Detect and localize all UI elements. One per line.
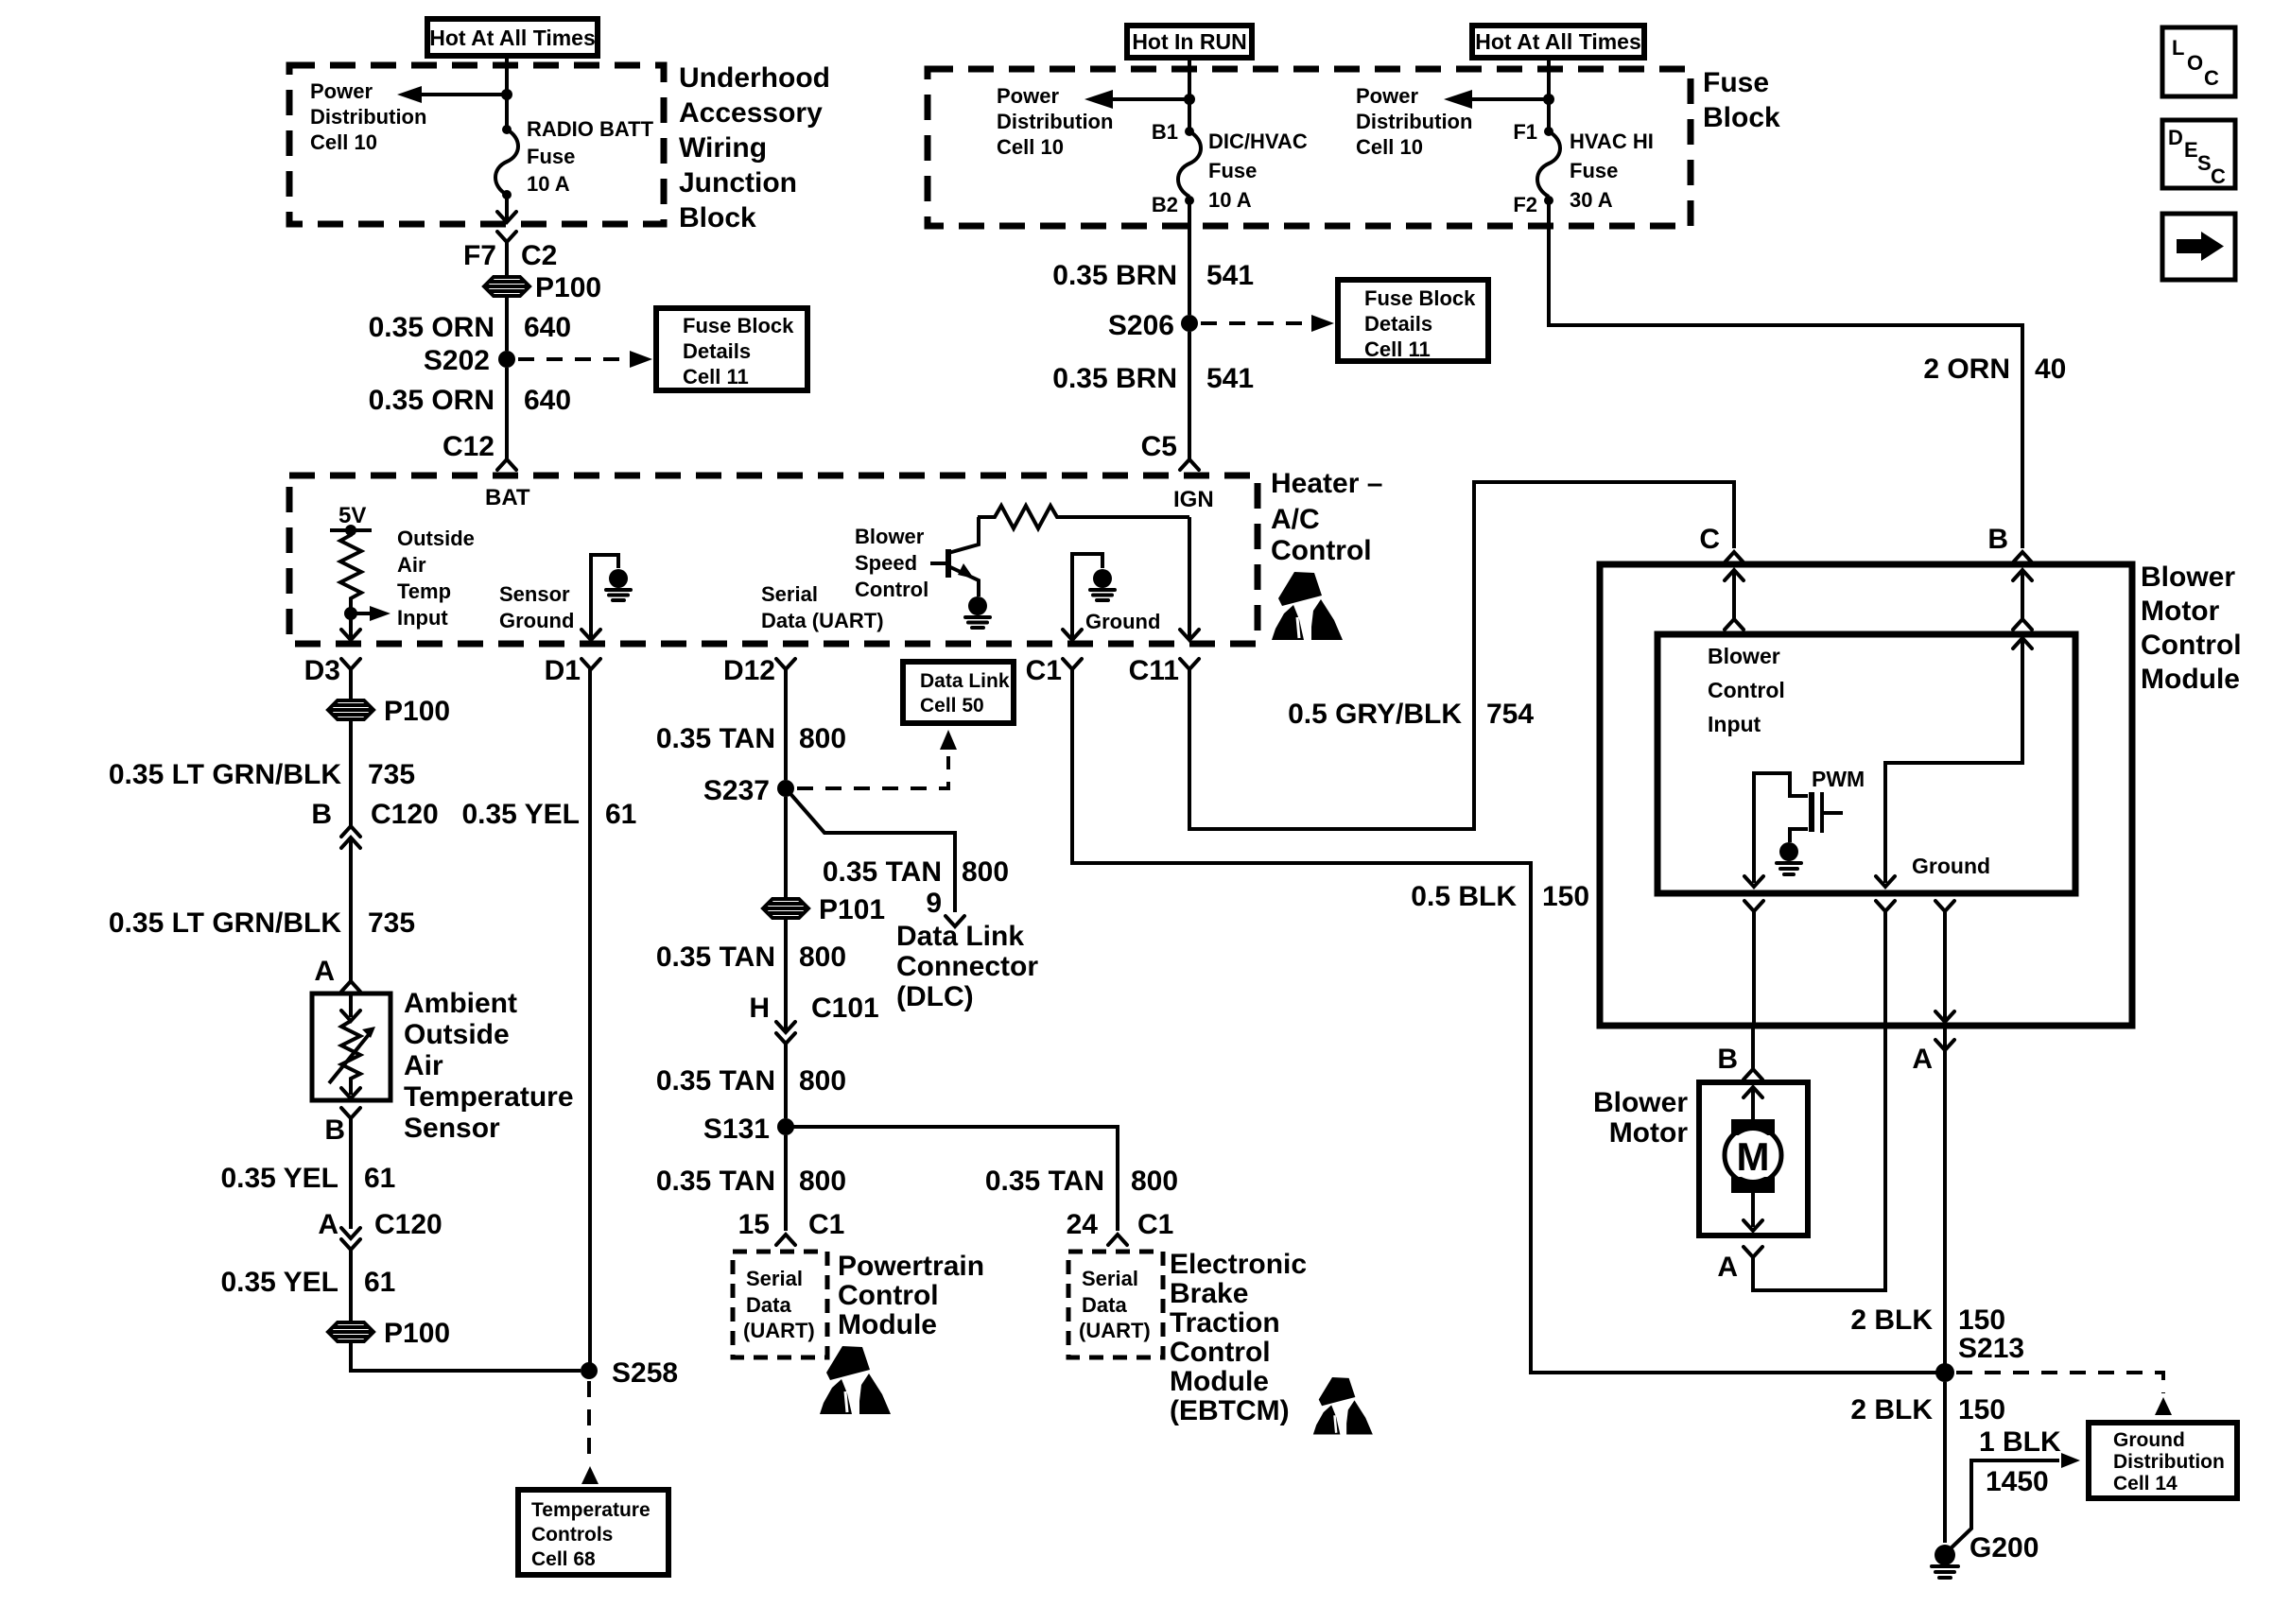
module title xyxy=(2141,561,2242,695)
svg-text:S258: S258 xyxy=(612,1357,678,1389)
svg-text:0.5 BLK: 0.5 BLK xyxy=(1411,881,1517,912)
ESD symbol (PCM) xyxy=(820,1346,891,1414)
wire S237 down to P101 xyxy=(784,797,788,898)
pin D12 chevron and label xyxy=(723,655,795,686)
wire S131 branch to EBTCM pin 24 xyxy=(786,1127,1118,1231)
module pin B internal arrow xyxy=(2013,570,2032,630)
svg-text:B2: B2 xyxy=(1152,193,1178,216)
svg-text:Electronic: Electronic xyxy=(1170,1249,1307,1280)
pin C11 chevron and label xyxy=(1129,655,1199,686)
forward arrow box xyxy=(2162,214,2235,280)
dashed reference arrow S237 to Data Link Cell 50 xyxy=(797,730,957,788)
svg-text:Blower: Blower xyxy=(855,525,925,548)
svg-text:Fuse: Fuse xyxy=(1570,159,1618,182)
svg-text:H: H xyxy=(749,993,770,1024)
svg-text:Distribution: Distribution xyxy=(1356,110,1472,133)
wire: power distribution feed arrow (left) xyxy=(1084,90,1189,109)
module pin to motor A return xyxy=(1753,1026,1885,1290)
Heater - A/C Control title xyxy=(1271,468,1382,566)
DESC reference box xyxy=(2162,120,2235,188)
svg-text:61: 61 xyxy=(605,799,636,830)
connector B into module xyxy=(1987,524,2032,562)
svg-text:2 BLK: 2 BLK xyxy=(1850,1304,1933,1336)
wire D1 sensor ground down to S258 xyxy=(588,669,592,1371)
splice S258 xyxy=(581,1357,678,1389)
svg-text:Speed: Speed xyxy=(855,551,917,575)
svg-text:G200: G200 xyxy=(1969,1532,2039,1564)
svg-text:Temp: Temp xyxy=(397,579,451,603)
svg-text:Control: Control xyxy=(2141,630,2242,661)
svg-text:10 A: 10 A xyxy=(1208,188,1252,212)
svg-text:P100: P100 xyxy=(384,1318,450,1349)
svg-text:RADIO BATT: RADIO BATT xyxy=(527,117,654,141)
svg-text:(UART): (UART) xyxy=(743,1319,815,1342)
svg-text:P100: P100 xyxy=(535,272,601,303)
svg-text:Cell 50: Cell 50 xyxy=(920,695,984,717)
Serial Data (UART) pin text xyxy=(761,582,884,632)
svg-text:A: A xyxy=(1717,1252,1738,1283)
splice S206 xyxy=(1108,310,1198,341)
Blower Motor box xyxy=(1699,1082,1808,1235)
wire 2 BLK 150 (below S213) to G200 xyxy=(1943,1382,1947,1543)
svg-text:Temperature: Temperature xyxy=(531,1499,651,1521)
connector P100 (lower) xyxy=(328,1318,450,1349)
Hot At All Times label box (right) xyxy=(1472,26,1644,58)
svg-text:Wiring: Wiring xyxy=(679,132,767,164)
Fuse Block Details Cell 11 box (right) xyxy=(1338,280,1488,361)
svg-text:0.35 BRN: 0.35 BRN xyxy=(1052,260,1177,291)
svg-text:C120: C120 xyxy=(371,799,439,830)
svg-text:Connector: Connector xyxy=(896,951,1038,982)
wire down to D3 with arrow xyxy=(341,619,360,640)
svg-text:Block: Block xyxy=(679,202,756,233)
svg-text:Control: Control xyxy=(855,578,928,601)
connector P101 xyxy=(763,894,885,925)
svg-text:IGN: IGN xyxy=(1173,487,1214,512)
svg-text:Data: Data xyxy=(746,1293,791,1317)
svg-text:0.35 TAN: 0.35 TAN xyxy=(656,1065,775,1097)
svg-text:C: C xyxy=(2204,66,2219,90)
wire branch S237 to DLC xyxy=(786,788,955,912)
svg-text:(UART): (UART) xyxy=(1079,1319,1151,1342)
svg-text:C1: C1 xyxy=(808,1209,844,1240)
Ground Distribution Cell 14 box xyxy=(2089,1423,2237,1498)
ESD symbol (heater control) xyxy=(1272,572,1343,640)
svg-text:Input: Input xyxy=(1708,712,1761,736)
Power Distribution Cell 10 text xyxy=(310,79,426,154)
Data Link Connector (DLC) title xyxy=(896,921,1038,1012)
dashed reference to Temperature Controls xyxy=(581,1381,599,1484)
RADIO BATT Fuse 10 A label xyxy=(527,117,654,196)
svg-text:C5: C5 xyxy=(1141,431,1177,462)
svg-text:D: D xyxy=(2168,126,2183,149)
svg-text:Control: Control xyxy=(1271,535,1372,566)
svg-text:Heater –: Heater – xyxy=(1271,468,1382,499)
svg-text:Ambient: Ambient xyxy=(404,988,517,1019)
EBTCM Serial Data (UART) dashed box xyxy=(1068,1252,1163,1357)
wire 2 BLK 150 (above S213) xyxy=(1850,1304,2005,1336)
svg-text:Fuse: Fuse xyxy=(1703,67,1769,98)
svg-text:800: 800 xyxy=(799,1065,846,1097)
svg-text:15: 15 xyxy=(738,1209,770,1240)
svg-text:0.35 TAN: 0.35 TAN xyxy=(656,942,775,973)
wire 2 ORN 40: from HVAC HI fuse to module pin B xyxy=(1549,200,2022,548)
svg-text:Blower: Blower xyxy=(1593,1087,1688,1118)
Powertrain Control Module title xyxy=(838,1251,984,1340)
svg-text:2 BLK: 2 BLK xyxy=(1850,1394,1933,1425)
pin C1 chevron and label xyxy=(1026,655,1082,686)
ESD symbol (EBTCM) xyxy=(1313,1377,1373,1434)
svg-text:Air: Air xyxy=(404,1050,443,1081)
svg-text:Cell 14: Cell 14 xyxy=(2113,1473,2178,1494)
Blower Control Input inner box xyxy=(1657,634,2075,893)
module pin to motor B xyxy=(1717,1026,1762,1080)
svg-text:Distribution: Distribution xyxy=(310,105,426,129)
splice S237 xyxy=(703,775,794,806)
svg-text:C101: C101 xyxy=(811,993,879,1024)
svg-text:61: 61 xyxy=(364,1163,395,1194)
svg-text:Details: Details xyxy=(683,339,751,363)
inner wire: B feed to PWM area xyxy=(1876,638,2032,887)
svg-text:150: 150 xyxy=(1958,1304,2005,1336)
pin D3 chevron and label xyxy=(304,655,360,686)
wire 0.35 YEL 61 (upper) xyxy=(220,1163,395,1194)
svg-text:B: B xyxy=(324,1114,345,1146)
connector C101 pin H xyxy=(749,993,878,1118)
IGN feed wire through box with arrow at C11 xyxy=(1180,517,1199,640)
wire 1 BLK 1450 to ground distribution xyxy=(1948,1453,2080,1551)
svg-text:Power: Power xyxy=(1356,84,1418,108)
wire: fuse output with down arrow at box edge xyxy=(497,195,516,222)
module pin C internal arrow xyxy=(1725,570,1744,630)
svg-text:B: B xyxy=(1717,1044,1738,1075)
svg-text:Power: Power xyxy=(310,79,373,103)
svg-text:541: 541 xyxy=(1206,363,1254,394)
wire 0.35 YEL 61 (D1) xyxy=(461,799,636,830)
svg-text:Underhood: Underhood xyxy=(679,62,830,94)
resistor: collector to IGN xyxy=(978,506,1189,528)
svg-text:C12: C12 xyxy=(442,431,495,462)
svg-text:DIC/HVAC: DIC/HVAC xyxy=(1208,130,1308,153)
svg-text:P101: P101 xyxy=(819,894,885,925)
node: battery feed tap xyxy=(1543,94,1554,105)
svg-text:Temperature: Temperature xyxy=(404,1081,574,1113)
wire 0.35 TAN 800 (below P101) xyxy=(784,919,788,1029)
Heater A/C Control dashed box xyxy=(289,475,1258,644)
wire: power distribution feed arrow (right) xyxy=(1444,90,1549,109)
underhood junction block dashed box xyxy=(289,65,664,224)
svg-text:0.35 ORN: 0.35 ORN xyxy=(369,385,495,416)
HVAC HI Fuse 30 A label xyxy=(1570,130,1654,212)
svg-text:Fuse: Fuse xyxy=(1208,159,1257,182)
svg-text:C: C xyxy=(2211,164,2226,188)
underhood block title xyxy=(679,62,830,233)
Data Link Cell 50 box xyxy=(903,662,1014,723)
svg-text:Ground: Ground xyxy=(2113,1429,2185,1451)
svg-text:A: A xyxy=(1912,1044,1933,1075)
Temperature Controls Cell 68 box xyxy=(518,1490,668,1575)
svg-text:A: A xyxy=(314,956,335,987)
dashed reference arrow S206 to Fuse Block Details xyxy=(1201,315,1334,332)
svg-text:0.5 GRY/BLK: 0.5 GRY/BLK xyxy=(1288,699,1462,730)
svg-text:541: 541 xyxy=(1206,260,1254,291)
svg-text:800: 800 xyxy=(799,1166,846,1197)
svg-text:Control: Control xyxy=(1170,1337,1271,1368)
connector C5 into Heater-A/C control xyxy=(1141,431,1199,470)
svg-text:F7: F7 xyxy=(463,240,496,271)
pin D1 chevron and label xyxy=(545,655,600,686)
dashed reference to Ground Distribution xyxy=(1956,1373,2172,1415)
inner box pin chevrons xyxy=(1744,901,1763,1026)
svg-text:Sensor: Sensor xyxy=(404,1113,500,1144)
wire from Hot At All Times into block xyxy=(505,56,509,127)
svg-text:1 BLK: 1 BLK xyxy=(1979,1426,2061,1458)
svg-text:Cell 11: Cell 11 xyxy=(683,365,749,389)
transistor Q (blower speed control) xyxy=(930,517,979,596)
svg-text:B: B xyxy=(1987,524,2008,555)
svg-text:5V: 5V xyxy=(338,503,366,528)
svg-text:S213: S213 xyxy=(1958,1333,2024,1364)
svg-text:Blower: Blower xyxy=(2141,561,2235,593)
svg-text:0.35 YEL: 0.35 YEL xyxy=(461,799,580,830)
svg-text:800: 800 xyxy=(799,723,846,754)
connector A into sensor xyxy=(314,956,360,992)
splice S202 xyxy=(424,345,515,376)
svg-text:Air: Air xyxy=(397,553,426,577)
wire 0.35 LT GRN/BLK 735 (upper) xyxy=(349,720,353,826)
svg-text:Fuse Block: Fuse Block xyxy=(1364,286,1476,310)
svg-text:640: 640 xyxy=(524,312,571,343)
svg-text:B1: B1 xyxy=(1152,120,1178,144)
svg-text:9: 9 xyxy=(926,888,942,919)
svg-text:Controls: Controls xyxy=(531,1524,613,1546)
fuse HVAC HI 30A xyxy=(1537,127,1560,205)
ground (transistor emitter) xyxy=(965,596,990,628)
Blower Motor Control Module box xyxy=(1600,564,2132,1026)
wire 0.35 BRN 541 (lower) xyxy=(1188,332,1191,459)
wire 0.35 ORN 640 (upper) xyxy=(505,297,509,351)
svg-text:S237: S237 xyxy=(703,775,770,806)
svg-text:0.35 BRN: 0.35 BRN xyxy=(1052,363,1177,394)
svg-text:O: O xyxy=(2187,51,2203,75)
svg-text:D3: D3 xyxy=(304,655,340,686)
svg-text:Traction: Traction xyxy=(1170,1307,1280,1339)
connector EBTCM pin 24 xyxy=(1067,1209,1174,1245)
svg-text:Module: Module xyxy=(1170,1366,1269,1397)
svg-text:640: 640 xyxy=(524,385,571,416)
splice S213 xyxy=(1935,1333,2024,1382)
svg-text:0.35 TAN: 0.35 TAN xyxy=(985,1166,1104,1197)
DIC/HVAC Fuse 10 A label xyxy=(1208,130,1308,212)
LOC reference box xyxy=(2162,27,2235,96)
svg-text:150: 150 xyxy=(1958,1394,2005,1425)
resistor: outside air temp pull-up xyxy=(340,530,361,608)
PCM Serial Data (UART) dashed box xyxy=(733,1252,827,1357)
wire S131 to PCM pin 15 xyxy=(784,1135,788,1231)
svg-text:C1: C1 xyxy=(1026,655,1062,686)
wire D3 pigtail xyxy=(349,669,353,700)
svg-text:0.35 LT GRN/BLK: 0.35 LT GRN/BLK xyxy=(109,759,341,790)
node: temp input junction with arrow xyxy=(344,606,390,621)
svg-text:Hot At All Times: Hot At All Times xyxy=(1475,29,1641,54)
svg-text:E: E xyxy=(2184,138,2198,162)
connector P100 (D3 line) xyxy=(328,696,450,727)
wire 0.5 BLK 150: C1 ground to S213 xyxy=(1072,669,1936,1373)
Electronic Brake Traction Control Module (EBTCM) title xyxy=(1170,1249,1307,1426)
svg-text:Hot In RUN: Hot In RUN xyxy=(1132,29,1246,54)
wire 0.35 LT GRN/BLK 735 (lower) xyxy=(109,907,415,939)
svg-text:Block: Block xyxy=(1703,102,1780,133)
svg-text:150: 150 xyxy=(1542,881,1589,912)
svg-text:61: 61 xyxy=(364,1267,395,1298)
svg-text:0.35 TAN: 0.35 TAN xyxy=(823,856,942,888)
svg-text:Serial: Serial xyxy=(761,582,818,606)
Blower Speed Control text xyxy=(855,525,928,601)
Outside Air Temp Input text xyxy=(397,527,475,630)
5V supply xyxy=(330,503,372,536)
motor M symbol xyxy=(1725,1087,1781,1231)
svg-text:754: 754 xyxy=(1486,699,1534,730)
svg-text:C2: C2 xyxy=(521,240,557,271)
svg-text:PWM: PWM xyxy=(1812,767,1865,791)
node: run feed tap xyxy=(1184,94,1195,105)
wire 0.5 GRY/BLK 754: C11 to module pin C xyxy=(1189,482,1734,829)
svg-text:Fuse: Fuse xyxy=(527,145,575,168)
Power Distribution Cell 10 text (right) xyxy=(1356,84,1472,159)
sensor title xyxy=(404,988,574,1144)
svg-text:Blower: Blower xyxy=(1708,644,1780,668)
Sensor Ground text xyxy=(499,582,574,632)
fuse DIC/HVAC 10A xyxy=(1178,127,1201,205)
svg-text:40: 40 xyxy=(2035,354,2066,385)
svg-text:P100: P100 xyxy=(384,696,450,727)
svg-text:0.35 LT GRN/BLK: 0.35 LT GRN/BLK xyxy=(109,907,341,939)
sensor ground wire to internal ground xyxy=(581,555,618,640)
connector C2 chevron below block xyxy=(497,232,516,276)
svg-text:Distribution: Distribution xyxy=(2113,1451,2225,1473)
svg-text:0.35 ORN: 0.35 ORN xyxy=(369,312,495,343)
svg-text:Junction: Junction xyxy=(679,167,797,199)
svg-text:Data Link: Data Link xyxy=(896,921,1024,952)
module pin A to S213 xyxy=(1912,1026,1954,1364)
svg-text:C1: C1 xyxy=(1137,1209,1173,1240)
svg-text:Accessory: Accessory xyxy=(679,97,823,129)
svg-text:(EBTCM): (EBTCM) xyxy=(1170,1395,1290,1426)
wire 0.35 ORN 640 (lower) xyxy=(505,368,509,459)
svg-text:Outside: Outside xyxy=(404,1019,510,1050)
connector C120 pin B xyxy=(311,799,438,981)
svg-text:1450: 1450 xyxy=(1986,1466,2049,1497)
connector C120 pin A xyxy=(318,1209,442,1322)
svg-text:S202: S202 xyxy=(424,345,490,376)
node: power distribution tap junction xyxy=(501,89,512,100)
svg-text:Control: Control xyxy=(838,1280,939,1311)
connector C12 into Heater-A/C control xyxy=(442,431,516,470)
Fuse Block title xyxy=(1703,67,1780,133)
svg-text:Cell 10: Cell 10 xyxy=(997,135,1064,159)
svg-text:Powertrain: Powertrain xyxy=(838,1251,984,1282)
ground (sensor ground) xyxy=(606,569,631,600)
svg-text:Motor: Motor xyxy=(2141,596,2220,627)
svg-text:Ground: Ground xyxy=(499,609,574,632)
svg-text:A: A xyxy=(318,1209,338,1240)
svg-text:HVAC HI: HVAC HI xyxy=(1570,130,1654,153)
connector P100 (top) xyxy=(484,272,601,303)
Hot In RUN label box xyxy=(1127,26,1252,58)
connector PCM pin 15 xyxy=(738,1209,845,1245)
svg-text:M: M xyxy=(1737,1134,1770,1179)
Hot At All Times label box (left) xyxy=(427,19,598,56)
svg-text:Data Link: Data Link xyxy=(920,670,1010,692)
svg-text:C: C xyxy=(1699,524,1720,555)
wire 0.35 BRN 541 (upper) xyxy=(1188,200,1191,315)
svg-text:Control: Control xyxy=(1708,678,1785,702)
svg-text:Details: Details xyxy=(1364,312,1432,336)
svg-text:735: 735 xyxy=(368,907,415,939)
svg-text:0.35 YEL: 0.35 YEL xyxy=(220,1267,338,1298)
svg-text:735: 735 xyxy=(368,759,415,790)
sensor internal: arrows + variable resistor xyxy=(329,993,375,1098)
svg-text:0.35 TAN: 0.35 TAN xyxy=(656,1166,775,1197)
svg-text:Cell 10: Cell 10 xyxy=(310,130,377,154)
fuse RADIO BATT 10A xyxy=(495,125,518,199)
svg-text:L: L xyxy=(2172,36,2184,60)
wire Hot In RUN into fuse block xyxy=(1188,58,1191,131)
svg-text:Module: Module xyxy=(2141,664,2240,695)
svg-text:B: B xyxy=(311,799,332,830)
splice S131 xyxy=(703,1114,794,1145)
motor pin A chevron xyxy=(1717,1247,1762,1283)
svg-text:Module: Module xyxy=(838,1309,937,1340)
connector C into module xyxy=(1699,524,1744,562)
svg-text:Fuse Block: Fuse Block xyxy=(683,314,794,337)
wire 0.35 YEL 61 (lower) xyxy=(220,1267,395,1298)
svg-text:Cell 68: Cell 68 xyxy=(531,1548,596,1570)
svg-text:(DLC): (DLC) xyxy=(896,981,974,1012)
svg-text:Power: Power xyxy=(997,84,1059,108)
svg-text:A/C: A/C xyxy=(1271,504,1320,535)
svg-text:C120: C120 xyxy=(374,1209,442,1240)
wire from P100 to splice S258 xyxy=(351,1342,581,1371)
svg-text:Input: Input xyxy=(397,606,448,630)
svg-text:Serial: Serial xyxy=(746,1267,803,1290)
svg-text:800: 800 xyxy=(799,942,846,973)
wire Hot At All Times into fuse block xyxy=(1547,58,1551,131)
svg-text:Ground: Ground xyxy=(1912,854,1990,878)
svg-text:0.35 YEL: 0.35 YEL xyxy=(220,1163,338,1194)
svg-text:Brake: Brake xyxy=(1170,1278,1248,1309)
svg-text:Sensor: Sensor xyxy=(499,582,570,606)
transistor PWM mosfet xyxy=(1790,767,1865,842)
svg-text:24: 24 xyxy=(1067,1209,1099,1240)
fuse block dashed box xyxy=(928,69,1691,226)
svg-text:10 A: 10 A xyxy=(527,172,570,196)
svg-text:S: S xyxy=(2197,151,2212,175)
svg-text:BAT: BAT xyxy=(485,485,530,510)
svg-text:30 A: 30 A xyxy=(1570,188,1613,212)
svg-text:D12: D12 xyxy=(723,655,775,686)
svg-text:Hot At All Times: Hot At All Times xyxy=(429,26,596,50)
inner wire: PWM drain pin xyxy=(1744,773,1808,887)
wire 0.35 TAN 800 (below C101) xyxy=(656,1065,846,1097)
svg-text:800: 800 xyxy=(962,856,1009,888)
svg-text:800: 800 xyxy=(1131,1166,1178,1197)
ground (C1 internal) xyxy=(1090,569,1115,600)
svg-text:2 ORN: 2 ORN xyxy=(1923,354,2010,385)
F7 / C2 pin labels xyxy=(463,240,557,271)
wire: power distribution feed arrow xyxy=(397,86,507,103)
wire D12 serial data xyxy=(784,669,788,780)
